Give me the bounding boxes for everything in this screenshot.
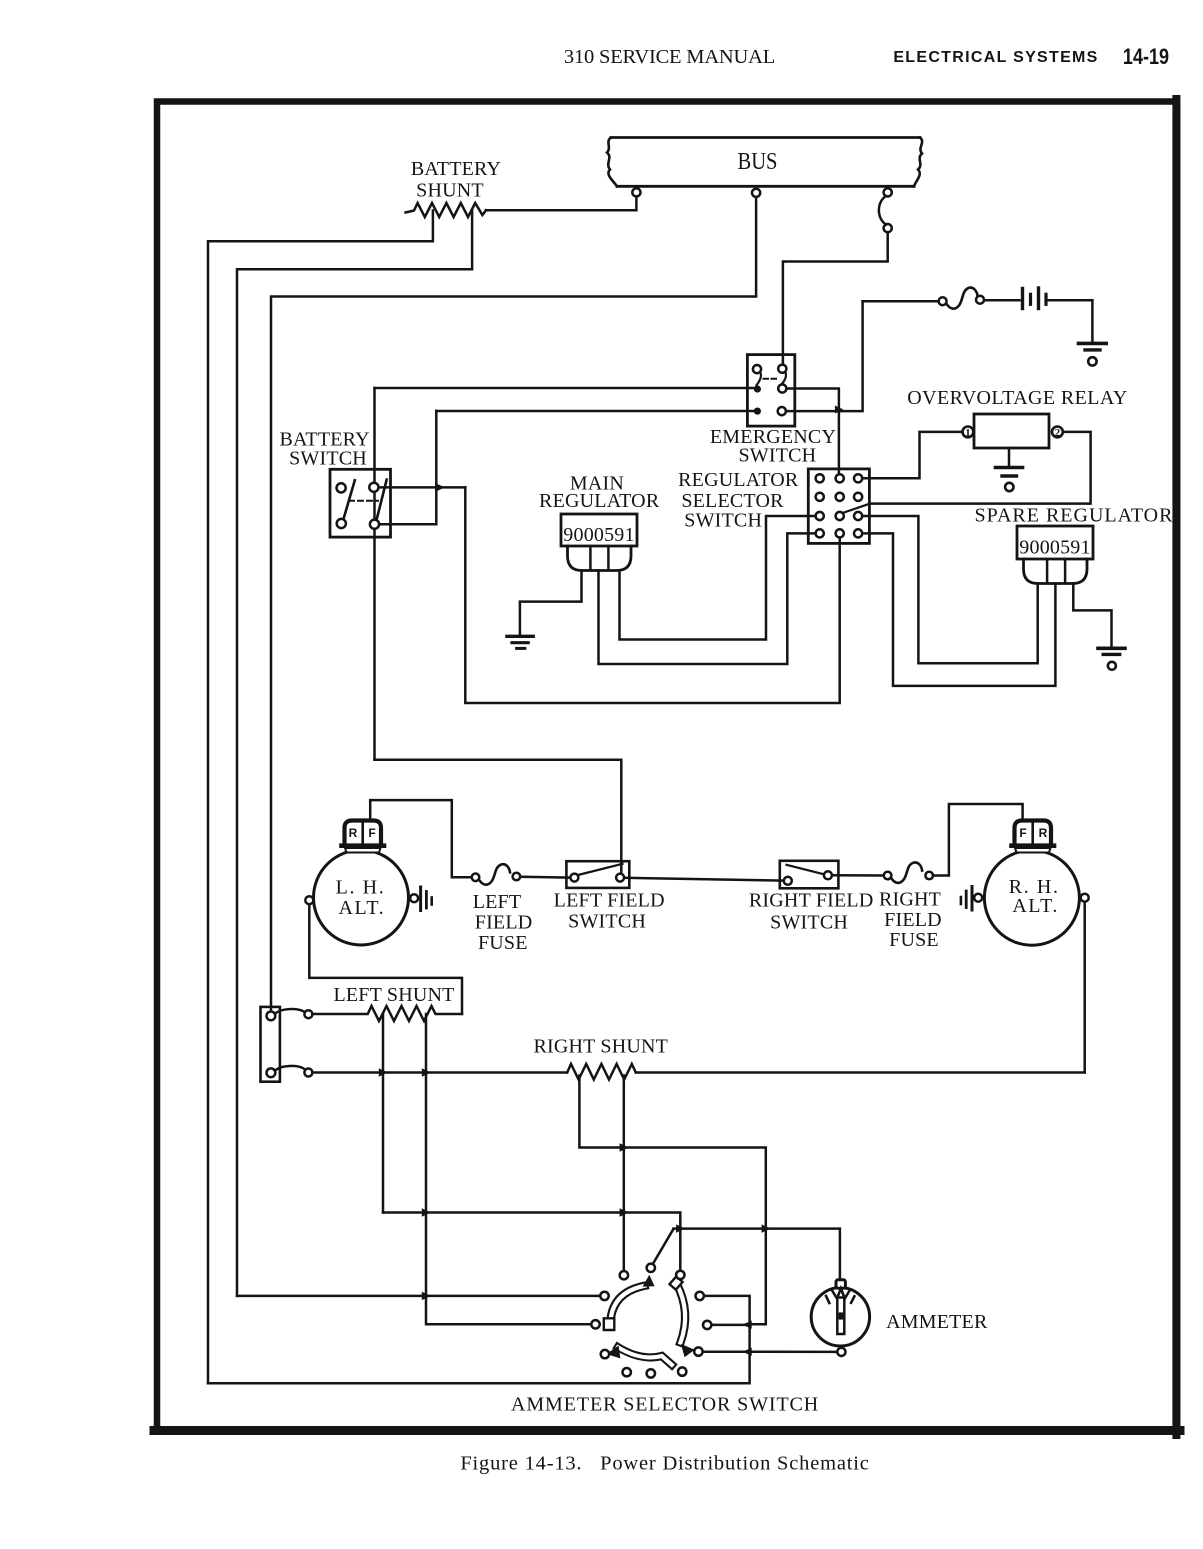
right field switch lever [787, 865, 825, 875]
wire rotary top contact diagonal to ammeter [653, 1229, 840, 1280]
wire main reg pin2 to selector row4-left [599, 533, 816, 664]
battery switch box [330, 469, 391, 537]
wire shunt drop 1 to left rail A [208, 211, 433, 1384]
earth ground (main regulator) [507, 636, 533, 648]
R.H. capacitor marks [971, 887, 974, 911]
bus terminal T3 [884, 188, 892, 196]
wire shunt drop to rotary top-right [383, 1213, 680, 1271]
right shunt line left segment [312, 1071, 567, 1074]
wire L.H. F terminal to left field fuse [370, 800, 471, 877]
wire fuse to left field switch [520, 876, 570, 879]
wire main reg pin3 to selector row3-left [620, 516, 816, 640]
bus terminal T2 [752, 189, 760, 197]
ammeter top terminal [836, 1280, 845, 1288]
connector bottom jumper arc [275, 1066, 304, 1070]
R.H. alternator left terminal [974, 894, 982, 902]
bus terminal T1 [632, 188, 640, 196]
spare regulator plug [1024, 559, 1088, 584]
wire emergency mid-right jog [786, 389, 839, 410]
L.H. alternator R-F terminal cap [342, 821, 385, 853]
svg-text:SPARE REGULATOR: SPARE REGULATOR [975, 505, 1174, 527]
right shunt line right segment [636, 1071, 1085, 1074]
wire relay T2 to selector lever [870, 432, 1091, 504]
battery switch main riser [373, 388, 376, 760]
svg-text:RIGHT FIELD: RIGHT FIELD [749, 890, 874, 912]
ammeter selector rotary blade bottom [606, 1346, 672, 1365]
right field fuse [884, 872, 892, 880]
wire L.H. left terminal to left shunt [309, 904, 462, 1014]
main regulator box 9000591 [561, 514, 637, 546]
svg-text:R: R [349, 826, 358, 840]
wire battery switch to left field switch [375, 760, 622, 874]
svg-text:SHUNT: SHUNT [416, 180, 484, 202]
ground (battery) [1079, 343, 1107, 365]
svg-text:ELECTRICAL SYSTEMS: ELECTRICAL SYSTEMS [893, 49, 1098, 66]
regulator selector switch box [808, 469, 869, 544]
bus bar [607, 138, 922, 187]
wire spare pin3 to ground [1073, 584, 1111, 647]
left field switch lever [578, 864, 623, 875]
svg-text:L. H.: L. H. [336, 877, 386, 899]
svg-text:F: F [368, 826, 375, 840]
svg-text:FIELD: FIELD [884, 909, 942, 931]
ground (spare regulator) [1098, 648, 1125, 670]
svg-text:RIGHT: RIGHT [879, 889, 941, 911]
wire selector row4-right to spare pin2 [862, 533, 1055, 686]
right field switch contacts [784, 877, 792, 885]
svg-text:REGULATOR: REGULATOR [678, 469, 799, 491]
svg-text:SWITCH: SWITCH [289, 448, 367, 470]
ammeter selector rotary blade upper-left [604, 1275, 655, 1330]
svg-text:SELECTOR: SELECTOR [681, 490, 784, 512]
ammeter selector rotary blade right [670, 1277, 695, 1358]
wire battery switch bot-right jog [379, 411, 436, 525]
svg-text:BATTERY: BATTERY [411, 158, 501, 180]
svg-text:AMMETER: AMMETER [886, 1311, 988, 1333]
svg-text:SWITCH: SWITCH [738, 445, 816, 467]
svg-text:REGULATOR: REGULATOR [539, 490, 660, 512]
battery switch dashed link [349, 500, 378, 502]
relay terminal 1 [963, 427, 974, 438]
svg-text:BUS: BUS [737, 147, 777, 174]
svg-text:RIGHT SHUNT: RIGHT SHUNT [533, 1036, 668, 1058]
left connector block [261, 1007, 280, 1082]
wire rotary right-middle to junction [711, 1324, 746, 1327]
svg-text:SWITCH: SWITCH [770, 911, 848, 933]
svg-text:SWITCH: SWITCH [684, 510, 762, 532]
ammeter scale ticks [826, 1296, 829, 1303]
L.H. alternator right terminal [410, 894, 418, 902]
connector bottom terminal [267, 1068, 276, 1077]
right field switch box [780, 861, 839, 889]
wire relay T1 to selector row1 [862, 432, 962, 478]
connector bottom plug circle [304, 1069, 312, 1077]
wire R.H. right terminal down to right shunt line [1083, 902, 1086, 1073]
emergency switch dashed link [764, 378, 780, 380]
svg-text:Figure 14-13. Power Distribu: Figure 14-13. Power Distribution Schemat… [460, 1453, 869, 1475]
svg-text:FUSE: FUSE [889, 929, 939, 951]
wire selector row3-right to spare pin1 [862, 516, 1037, 663]
wire rotary bottom-right to ammeter bottom [703, 1350, 838, 1353]
L.H. alternator left terminal [305, 896, 313, 904]
left shunt sense drop B [426, 1014, 591, 1324]
ammeter bottom terminal [837, 1348, 845, 1356]
svg-text:LEFT: LEFT [473, 891, 522, 913]
wire shunt to bus T1 [486, 197, 636, 211]
svg-text:LEFT FIELD: LEFT FIELD [554, 889, 665, 911]
connector top plug circle [304, 1010, 312, 1018]
svg-text:SWITCH: SWITCH [568, 911, 646, 933]
ammeter pointer flare [832, 1289, 851, 1299]
svg-text:310 SERVICE MANUAL: 310 SERVICE MANUAL [564, 46, 775, 68]
R.H. alternator F-R terminal cap [1012, 821, 1055, 853]
wire riser to row4-middle rail [465, 487, 839, 703]
battery shunt resistor [406, 203, 487, 217]
connector top terminal [267, 1012, 276, 1021]
L.H. alternator circle [314, 850, 409, 945]
spare regulator box 9000591 [1017, 526, 1093, 559]
rotary contacts ring [591, 1264, 711, 1378]
right shunt sense drop A [579, 1076, 765, 1325]
svg-text:FIELD: FIELD [475, 911, 533, 933]
battery symbol [984, 299, 1019, 302]
svg-text:1: 1 [965, 427, 971, 439]
left shunt sense drop A [382, 1014, 385, 1213]
wire emergency bot-right to riser [786, 301, 863, 411]
svg-text:F: F [1019, 826, 1026, 840]
L.H. capacitor marks [419, 887, 422, 911]
svg-text:ALT.: ALT. [1012, 895, 1059, 917]
left shunt resistor [312, 1006, 462, 1021]
wire right field switch to right field fuse [832, 874, 884, 877]
R.H. alternator circle [984, 850, 1079, 945]
wire left field switch to right field switch [624, 878, 784, 881]
R.H. alternator right terminal [1081, 894, 1089, 902]
wire T3 to emergency switch [783, 232, 888, 364]
wire shunt drop 2 to left rail B [237, 211, 472, 1296]
main battery fuse [939, 297, 947, 305]
emergency switch levers [757, 372, 761, 385]
selector lever [843, 504, 870, 513]
svg-text:AMMETER SELECTOR SWITCH: AMMETER SELECTOR SWITCH [511, 1393, 819, 1415]
relay ground [996, 448, 1023, 491]
wire battery switch top-right to selector riser [379, 486, 466, 489]
bus T3 lower plug circle [884, 224, 892, 232]
main regulator plug [568, 546, 632, 571]
right shunt sense drop B [623, 1076, 626, 1272]
wire emergency bot-left [436, 410, 753, 413]
junction arrows [379, 406, 844, 1357]
svg-text:14-19: 14-19 [1123, 45, 1169, 69]
wire bus T2 down and left to connector rail [271, 197, 756, 1012]
border frame [157, 102, 1177, 1432]
right shunt resistor [567, 1064, 636, 1080]
ammeter body [811, 1288, 869, 1346]
svg-text:LEFT SHUNT: LEFT SHUNT [333, 984, 454, 1006]
svg-text:FUSE: FUSE [478, 932, 528, 954]
wire battery to ground [1048, 300, 1093, 342]
wire junction to selector top-middle [838, 411, 841, 474]
emergency switch box [747, 355, 794, 427]
wire rotary right-upper to bottom rail [208, 1296, 750, 1383]
left field switch contacts [570, 874, 578, 882]
wire rail B to rotary left-upper [237, 1295, 600, 1298]
svg-text:2: 2 [1055, 427, 1061, 439]
left field switch box [566, 861, 629, 888]
svg-text:9000591: 9000591 [1019, 537, 1090, 559]
left field fuse [472, 874, 480, 882]
wire emergency mid-left to battery switch rail [375, 387, 754, 390]
bus T3 plug arc [879, 196, 886, 225]
battery switch levers [344, 480, 355, 519]
wire right field fuse to R.H. F terminal [933, 804, 1023, 876]
wire main reg pin1 to earth [520, 571, 582, 635]
svg-text:ALT.: ALT. [339, 897, 386, 919]
emergency switch contacts [753, 365, 761, 373]
selector contacts grid [816, 474, 863, 537]
relay terminal 2 [1052, 427, 1063, 438]
overvoltage relay box [974, 414, 1049, 448]
wire to main fuse [863, 300, 939, 303]
svg-text:9000591: 9000591 [563, 524, 634, 546]
ammeter needle [837, 1298, 844, 1335]
battery switch contacts [337, 483, 346, 492]
svg-text:R: R [1039, 826, 1048, 840]
svg-text:OVERVOLTAGE RELAY: OVERVOLTAGE RELAY [907, 387, 1127, 409]
connector top jumper arc [275, 1009, 305, 1014]
